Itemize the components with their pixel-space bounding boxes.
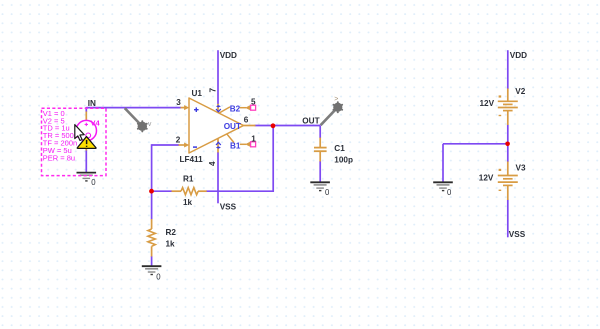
probe IN blob <box>138 122 147 131</box>
wire V2 bottom to junction <box>507 125 509 145</box>
probe OUT blob <box>333 103 342 112</box>
pin 2 arrowhead <box>184 143 189 148</box>
wire R1 right to feedback corner <box>206 190 273 192</box>
warning triangle <box>77 137 96 149</box>
ground (V4) <box>77 173 97 187</box>
op-amp U1 triangle <box>189 98 244 153</box>
wire out corner down <box>319 126 321 139</box>
svg-text:0: 0 <box>325 188 330 197</box>
wire pin2 vertical to junction <box>151 144 153 192</box>
svg-text:1k: 1k <box>183 198 193 207</box>
svg-text:LF411: LF411 <box>180 155 204 164</box>
B2 B1 OUT blue labels <box>224 105 241 151</box>
svg-text:C1: C1 <box>334 144 345 153</box>
svg-text:U1: U1 <box>192 89 203 98</box>
svg-text:OUT: OUT <box>302 117 319 126</box>
wire C1 bottom to ground <box>319 161 321 182</box>
lead C1 top <box>319 138 321 147</box>
svg-text:>: > <box>334 96 338 103</box>
lead V4 top <box>85 112 87 121</box>
lead R2 bottom <box>151 246 153 256</box>
op-amp minus mark <box>193 146 197 148</box>
svg-text:OUT: OUT <box>224 122 241 131</box>
svg-text:VSS: VSS <box>220 202 237 211</box>
svg-text:0: 0 <box>447 188 452 197</box>
lead R1 left <box>172 190 182 192</box>
wire pin4 to VSS label <box>217 152 219 203</box>
lead pin7 <box>217 104 219 113</box>
warning exclamation <box>86 140 88 147</box>
svg-text:VSS: VSS <box>509 230 526 239</box>
svg-text:VDD: VDD <box>510 51 527 60</box>
svg-text:7: 7 <box>209 88 218 93</box>
lead V3 bottom <box>507 186 509 200</box>
V4 parameter text <box>43 109 78 162</box>
svg-text:1: 1 <box>251 134 256 143</box>
svg-text:1k: 1k <box>166 240 176 249</box>
svg-text:2: 2 <box>176 135 181 144</box>
svg-text:0: 0 <box>156 272 161 281</box>
ground (R2) <box>142 266 162 281</box>
svg-text:5: 5 <box>251 97 256 106</box>
lead V3 top <box>507 162 509 176</box>
svg-text:100p: 100p <box>334 156 353 165</box>
B2 pin stub <box>219 107 230 113</box>
svg-text:VDD: VDD <box>220 51 237 60</box>
V4 plus mark <box>85 123 88 126</box>
lead R2 top <box>151 219 153 229</box>
pin 1 terminal square <box>251 142 256 147</box>
op-amp labels <box>176 89 256 164</box>
wire supply junction to ground horizontal <box>443 143 508 145</box>
node junction R1/R2/pin2 <box>149 189 154 194</box>
capacitor C1 <box>314 148 327 152</box>
V4 source circle <box>76 120 96 140</box>
svg-text:12V: 12V <box>479 173 494 182</box>
wire VDD to pin7 <box>217 50 219 104</box>
wire pin2 horizontal <box>152 144 179 146</box>
lead V2 bottom <box>507 111 509 125</box>
svg-text:R2: R2 <box>166 228 177 237</box>
wire IN node to pin3 <box>86 107 181 109</box>
svg-text:4: 4 <box>208 161 217 166</box>
wire V4 bottom to ground <box>85 150 87 173</box>
lead V4 bottom <box>85 141 87 151</box>
svg-text:B1: B1 <box>230 141 241 150</box>
svg-text:v: v <box>148 121 152 128</box>
resistor R1 <box>181 188 198 195</box>
lead R1 right <box>198 190 207 192</box>
battery V2 <box>498 101 518 110</box>
svg-text:V4: V4 <box>91 119 101 128</box>
wire ground drop right <box>442 144 444 182</box>
op-amp plus mark <box>194 107 199 112</box>
wire feedback vertical <box>272 126 274 193</box>
wire R2 bottom to ground <box>151 256 153 266</box>
mouse cursor <box>75 125 84 141</box>
probe IN stick <box>125 108 141 124</box>
ground (C1) <box>310 182 330 197</box>
resistor R2 <box>148 229 155 246</box>
wire junction to V3 top <box>507 144 509 162</box>
svg-text:3: 3 <box>176 98 181 107</box>
svg-text:12V: 12V <box>480 99 495 108</box>
svg-text:V2: V2 <box>515 87 525 96</box>
node junction supply mid <box>505 142 510 147</box>
svg-text:IN: IN <box>88 99 96 108</box>
battery V3 <box>498 176 518 186</box>
wire VDD right rail <box>507 50 509 89</box>
lead pin6 <box>244 125 256 127</box>
svg-text:R1: R1 <box>183 175 194 184</box>
svg-text:0: 0 <box>91 178 96 187</box>
wire pin6 out <box>255 125 321 127</box>
wire junction to R2 <box>151 191 153 219</box>
selection rect V4 <box>42 108 107 175</box>
lead pin4 <box>217 138 219 152</box>
pin 5 terminal square <box>251 105 256 110</box>
ground (supply) <box>433 182 453 197</box>
svg-text:PER = 8u: PER = 8u <box>43 153 75 162</box>
lead V2 top <box>507 89 509 102</box>
lead pin3 <box>181 107 186 109</box>
probe OUT stick <box>321 109 337 125</box>
pin7 supply arrow <box>216 105 221 112</box>
V4 inner glyph <box>86 133 91 138</box>
wire V4 top <box>85 107 87 112</box>
lead pin2 <box>179 144 186 146</box>
svg-text:B2: B2 <box>230 105 241 114</box>
pin4 supply arrow <box>216 142 221 148</box>
wire V3 bottom to VSS label <box>507 200 509 238</box>
svg-text:6: 6 <box>244 116 249 125</box>
wire junction to R1 <box>152 190 172 192</box>
node junction OUT <box>271 123 276 128</box>
svg-text:V3: V3 <box>516 163 526 172</box>
lead C1 bottom <box>319 152 321 162</box>
B1 pin stub <box>227 134 234 142</box>
pin 3 arrowhead <box>184 105 189 110</box>
